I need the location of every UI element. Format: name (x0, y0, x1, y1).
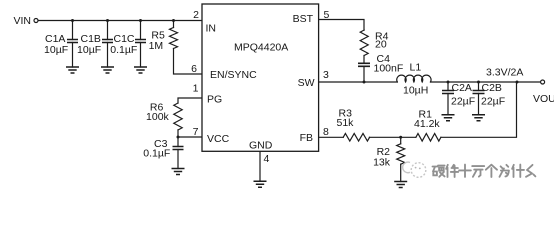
svg-text:2: 2 (193, 9, 199, 21)
svg-text:MPQ4420A: MPQ4420A (234, 42, 288, 54)
svg-text:22µF: 22µF (481, 96, 505, 108)
svg-text:100nF: 100nF (374, 63, 404, 75)
svg-text:C2B: C2B (482, 82, 502, 94)
svg-text:BST: BST (293, 13, 314, 25)
svg-text:8: 8 (323, 126, 329, 138)
svg-text:1M: 1M (149, 40, 164, 52)
svg-text:VIN: VIN (14, 15, 32, 27)
svg-text:51k: 51k (337, 117, 355, 129)
svg-text:10µF: 10µF (44, 44, 68, 56)
svg-text:0.1µF: 0.1µF (110, 44, 137, 56)
svg-text:SW: SW (298, 77, 315, 89)
svg-text:22µF: 22µF (451, 96, 475, 108)
svg-text:10µF: 10µF (77, 44, 101, 56)
svg-text:EN/SYNC: EN/SYNC (210, 69, 257, 81)
svg-text:3: 3 (323, 69, 329, 81)
svg-text:PG: PG (207, 94, 222, 106)
svg-text:13k: 13k (373, 157, 391, 169)
svg-text:4: 4 (264, 153, 270, 165)
svg-text:1: 1 (193, 83, 199, 95)
svg-text:IN: IN (206, 23, 217, 35)
svg-text:100k: 100k (146, 111, 170, 123)
svg-text:FB: FB (300, 132, 313, 144)
svg-text:10µH: 10µH (403, 85, 428, 97)
svg-text:7: 7 (193, 126, 199, 138)
svg-text:20: 20 (375, 39, 387, 51)
svg-text:C2A: C2A (452, 82, 472, 94)
svg-text:41.2k: 41.2k (414, 118, 440, 130)
svg-text:L1: L1 (410, 62, 422, 74)
svg-text:VOUT: VOUT (533, 93, 554, 105)
svg-text:GND: GND (249, 140, 273, 152)
svg-text:5: 5 (324, 9, 330, 21)
svg-text:6: 6 (191, 63, 197, 75)
svg-text:VCC: VCC (207, 133, 230, 145)
svg-text:0.1µF: 0.1µF (143, 148, 170, 160)
svg-text:3.3V/2A: 3.3V/2A (486, 67, 523, 79)
